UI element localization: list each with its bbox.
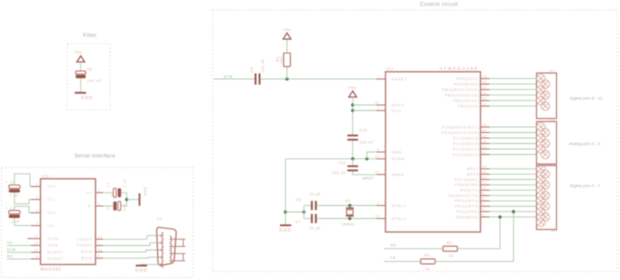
IC1 pin 11 PD5(T1) + wire to header	[460, 186, 537, 193]
svg-text:10k: 10k	[280, 57, 284, 64]
svg-text:R1IN: R1IN	[81, 250, 92, 254]
wire	[80, 62, 82, 71]
svg-text:8: 8	[377, 148, 379, 152]
svg-text:PD5(T1): PD5(T1)	[460, 189, 479, 193]
svg-text:GND: GND	[144, 187, 148, 196]
wire	[303, 206, 305, 219]
svg-text:GND: GND	[81, 95, 94, 100]
svg-text:C11: C11	[338, 161, 346, 165]
capacitor C8 100 uF	[76, 67, 102, 83]
capacitor C7 22 pF	[296, 214, 322, 231]
IC2 pin 13 R1IN	[81, 248, 103, 255]
capacitor C4 100 nF (series)	[250, 58, 265, 84]
wire	[127, 199, 139, 201]
resistor R1 10k	[276, 53, 291, 67]
IC1 pin 6 PD4(XCK/T0) + wire to header	[449, 191, 537, 198]
svg-text:PD7(AIN1): PD7(AIN1)	[455, 178, 480, 182]
svg-text:IC1: IC1	[387, 67, 394, 71]
svg-text:9: 9	[377, 201, 379, 205]
svg-text:3: 3	[483, 207, 485, 211]
IC1 pin 16 PB2(SS/OC1B) + wire to header	[445, 91, 537, 98]
svg-text:MAX232: MAX232	[41, 266, 62, 271]
svg-text:26: 26	[483, 134, 487, 138]
IC1 pin 22 ADC7 + wire to header	[467, 165, 537, 172]
svg-text:C4: C4	[250, 67, 254, 73]
svg-text:GND: GND	[135, 268, 148, 273]
wire	[352, 141, 354, 159]
IC1 pin 14 PB0(ICP) + wire to header	[458, 102, 537, 109]
svg-text:21: 21	[375, 170, 379, 174]
node cap gnd	[302, 210, 305, 213]
IC1 pin 24 PC1(ADC1) + wire to header	[453, 145, 537, 152]
svg-text:C5: C5	[107, 205, 111, 210]
node gnd2	[365, 157, 368, 160]
svg-text:PD6(AIN0): PD6(AIN0)	[455, 183, 480, 187]
net label DTR / reset wire	[214, 75, 255, 79]
node gnd1	[351, 157, 354, 160]
svg-text:PC0(ADC0): PC0(ADC0)	[453, 153, 479, 157]
svg-text:24: 24	[483, 145, 487, 149]
net label RX	[7, 254, 31, 259]
svg-text:8: 8	[98, 254, 100, 258]
svg-text:12: 12	[34, 248, 38, 252]
svg-text:PB1(OC1A): PB1(OC1A)	[453, 99, 479, 103]
svg-text:3: 3	[36, 195, 38, 199]
wire	[352, 159, 354, 166]
IC1 pin 20 AVCC	[375, 101, 405, 108]
svg-text:18: 18	[483, 80, 487, 84]
node crystal gnd	[284, 210, 287, 213]
svg-text:7: 7	[98, 241, 100, 245]
svg-text:6: 6	[483, 191, 485, 195]
svg-text:RX: RX	[7, 254, 13, 258]
svg-text:RESET: RESET	[392, 77, 408, 81]
IC1 pin 13 PD7(AIN1) + wire to header	[455, 175, 537, 182]
svg-text:27: 27	[483, 128, 487, 132]
wire	[352, 97, 354, 135]
svg-text:14: 14	[98, 235, 102, 239]
svg-text:JP2: JP2	[549, 117, 555, 121]
svg-text:Digital pins 0 - 7: Digital pins 0 - 7	[570, 183, 600, 188]
svg-text:Control circuit: Control circuit	[420, 2, 458, 8]
wire	[285, 211, 304, 213]
wire GND riser to DB9	[142, 263, 160, 266]
resistor R3 1k	[421, 254, 436, 271]
svg-text:C7: C7	[296, 220, 302, 224]
IC2 pin 14 T1OUT	[77, 235, 103, 242]
svg-text:1k: 1k	[425, 267, 430, 271]
resistor R2 1k	[443, 241, 458, 258]
svg-text:AREF: AREF	[392, 173, 405, 177]
svg-text:100 uF: 100 uF	[87, 79, 101, 83]
IC1 pin 27 PC4(ADC4/SDA) + wire to header	[441, 128, 537, 135]
svg-text:11: 11	[34, 234, 38, 238]
svg-text:C10: C10	[359, 129, 367, 133]
node PD1/TX	[512, 210, 515, 213]
IC1 pin 12 PD6(AIN0) + wire to header	[455, 181, 537, 188]
svg-text:19: 19	[483, 170, 487, 174]
svg-text:AVCC: AVCC	[392, 103, 405, 107]
svg-text:100 nF: 100 nF	[359, 141, 373, 145]
svg-text:17: 17	[483, 85, 487, 89]
svg-text:16: 16	[483, 91, 487, 95]
svg-text:C2-: C2-	[48, 224, 56, 228]
svg-text:T2IN: T2IN	[48, 244, 59, 248]
wire	[14, 193, 31, 204]
IC2 pin 8 R2IN	[81, 254, 103, 261]
capacitor C1 1 uF	[5, 180, 20, 197]
IC1 pin 2 PD0(RXD) + wire to header	[456, 213, 537, 220]
wire	[14, 174, 31, 187]
svg-text:AGND: AGND	[392, 157, 406, 161]
capacitor C10 100 nF	[347, 129, 373, 145]
svg-text:DTR: DTR	[224, 75, 233, 79]
wire	[317, 218, 376, 220]
svg-text:1 uF: 1 uF	[123, 179, 127, 187]
svg-text:Digital pins 8 - 13: Digital pins 8 - 13	[570, 95, 602, 100]
svg-text:15: 15	[483, 96, 487, 100]
svg-text:RX: RX	[391, 243, 397, 247]
svg-text:22 pF: 22 pF	[309, 192, 321, 196]
svg-text:+: +	[5, 207, 8, 211]
IC1 pin 22 AGND	[375, 154, 405, 161]
svg-text:+5V: +5V	[348, 85, 357, 90]
IC1 pin 9 XTAL1	[377, 201, 407, 208]
svg-text:Analog pins 0 - 5: Analog pins 0 - 5	[569, 141, 600, 146]
IC1 pin 28 PC5(ADC5/SCL) + wire to header	[442, 123, 537, 130]
header JP2 analog pins 0-5	[537, 117, 557, 164]
Filter block dashed border	[68, 44, 111, 110]
svg-text:C1+: C1+	[48, 185, 57, 189]
svg-text:10: 10	[34, 241, 38, 245]
svg-text:C1-: C1-	[48, 198, 56, 202]
svg-text:11: 11	[483, 186, 487, 190]
svg-text:PB4(MISO): PB4(MISO)	[454, 82, 480, 86]
IC2 pin 12 R1OUT	[31, 248, 64, 255]
IC1 pin 5 PD3(INT1) + wire to header	[455, 197, 537, 204]
IC2 pin 7 T2OUT	[77, 241, 103, 248]
svg-text:PC2(ADC2): PC2(ADC2)	[453, 142, 479, 146]
wire	[286, 67, 288, 79]
net label TX	[7, 241, 31, 246]
wire T2OUT to DB9 pin 2	[103, 243, 160, 246]
wire	[353, 171, 377, 174]
svg-text:VCC: VCC	[392, 109, 402, 113]
wire	[317, 205, 376, 207]
IC1 pin 10 XTAL2	[375, 214, 406, 221]
IC1 pin 15 PB1(OC1A) + wire to header	[453, 96, 537, 103]
svg-text:T1IN: T1IN	[48, 237, 59, 241]
capacitor C2 1 uF	[5, 207, 20, 224]
IC2 pin 10 T2IN	[31, 241, 58, 248]
IC2 pin 9 R2OUT	[31, 255, 64, 262]
svg-text:100 nF: 100 nF	[332, 171, 346, 175]
wire	[14, 206, 31, 212]
svg-text:Q1: Q1	[345, 199, 351, 203]
IC2 pin 2 V+	[86, 188, 103, 195]
svg-text:T2OUT: T2OUT	[77, 244, 93, 248]
svg-text:GND: GND	[392, 150, 403, 154]
net label RX / wire	[384, 243, 443, 248]
svg-text:13: 13	[483, 175, 487, 179]
IC2 pin 4 C2+	[31, 208, 56, 215]
wire	[457, 217, 500, 249]
svg-text:Filter: Filter	[83, 33, 97, 39]
IC2 MAX232 body	[41, 174, 96, 271]
svg-text:1: 1	[36, 182, 38, 186]
svg-text:1 uF: 1 uF	[123, 203, 127, 211]
svg-text:9: 9	[36, 255, 38, 259]
svg-text:1: 1	[377, 75, 379, 79]
node V+/V- cap junction	[125, 198, 128, 201]
svg-text:100 nF: 100 nF	[261, 58, 265, 72]
net label DTR	[7, 248, 31, 253]
IC1 pin 8 GND	[377, 148, 403, 155]
Serial interface dashed border	[2, 168, 194, 278]
+5V supply (filter)	[74, 50, 85, 62]
svg-text:V-: V-	[88, 204, 93, 208]
svg-text:PD3(INT1): PD3(INT1)	[455, 199, 479, 203]
IC1 pin 19 PB5(SCK) + wire to header	[456, 74, 537, 81]
svg-text:ADC6: ADC6	[467, 172, 480, 176]
IC2 pin 1 C1+	[31, 182, 56, 189]
IC1 pin 7 VCC	[377, 106, 402, 113]
svg-text:C3: C3	[107, 182, 111, 187]
node reset junction	[285, 77, 288, 80]
IC1 pin 17 PB3(MOSI/OC2) + wire to header	[442, 85, 537, 92]
Control circuit dashed border	[213, 10, 618, 272]
svg-text:PC3(ADC3): PC3(ADC3)	[453, 136, 479, 140]
node AVCC	[351, 103, 354, 106]
wire	[261, 78, 377, 80]
node VCC	[351, 109, 354, 112]
svg-text:+: +	[5, 180, 8, 184]
svg-text:+: +	[111, 193, 114, 197]
svg-text:PB5(SCK): PB5(SCK)	[456, 77, 479, 81]
wire	[14, 218, 31, 226]
header JP3 digital pins 8-13	[537, 69, 557, 119]
svg-text:C6: C6	[296, 198, 302, 202]
IC1 pin 21 AREF	[375, 170, 404, 177]
wire	[121, 193, 127, 200]
svg-text:C2+: C2+	[48, 211, 57, 215]
IC2 pin 3 C1-	[31, 195, 56, 202]
svg-text:14: 14	[483, 102, 487, 106]
svg-text:19: 19	[483, 74, 487, 78]
ground (DB9)	[135, 266, 148, 273]
svg-text:R2OUT: R2OUT	[48, 257, 64, 261]
svg-text:4: 4	[36, 208, 38, 212]
wire R1IN to DB9 pin 3	[103, 250, 160, 252]
svg-text:12: 12	[483, 181, 487, 185]
+5V supply (reset pullup)	[282, 27, 291, 39]
DB9 pin bridges	[182, 239, 184, 246]
svg-text:ATMEGA168: ATMEGA168	[439, 66, 478, 71]
svg-text:IC2: IC2	[42, 174, 49, 178]
IC2 pin 5 C2-	[31, 221, 56, 228]
svg-text:22: 22	[375, 154, 379, 158]
IC1 pin 26 PC3(ADC3) + wire to header	[453, 134, 537, 141]
svg-text:X1: X1	[157, 217, 162, 221]
svg-text:PB3(MOSI/OC2): PB3(MOSI/OC2)	[442, 88, 479, 92]
svg-text:GND: GND	[279, 227, 292, 232]
svg-text:PC1(ADC1): PC1(ADC1)	[453, 147, 479, 151]
svg-text:2: 2	[98, 188, 100, 192]
svg-text:PD2(INT0): PD2(INT0)	[455, 205, 479, 209]
svg-text:XTAL1: XTAL1	[392, 204, 407, 208]
IC1 pin 19 ADC6 + wire to header	[467, 170, 537, 177]
wire	[353, 110, 377, 112]
svg-text:Serial interface: Serial interface	[75, 154, 116, 160]
svg-text:20: 20	[375, 101, 379, 105]
svg-text:10: 10	[375, 214, 379, 218]
wire	[367, 152, 377, 159]
IC1 pin 18 PB4(MISO) + wire to header	[454, 80, 537, 87]
svg-text:+5V: +5V	[74, 50, 83, 55]
capacitor C6 22 pF	[296, 192, 322, 210]
node xtal1	[348, 204, 351, 207]
svg-text:PD1(TXD): PD1(TXD)	[456, 210, 479, 214]
svg-text:ADC7: ADC7	[467, 167, 480, 171]
wire	[304, 218, 311, 220]
svg-text:1k: 1k	[449, 254, 454, 258]
ground (crystal)	[279, 225, 292, 232]
connector X1 DB9	[157, 217, 186, 268]
wire	[286, 39, 288, 53]
svg-text:PD0(RXD): PD0(RXD)	[456, 215, 480, 219]
svg-text:5: 5	[483, 197, 485, 201]
svg-text:JP1: JP1	[551, 229, 557, 233]
svg-text:PB2(SS/OC1B): PB2(SS/OC1B)	[445, 93, 480, 97]
capacitor C5 1 uF (V-)	[103, 202, 127, 212]
node PD0/RX	[498, 215, 501, 218]
IC1 pin 1 RESET	[377, 75, 408, 82]
IC2 pin 11 T1IN	[31, 234, 58, 241]
capacitor C11 100 nF (AREF)	[332, 161, 358, 175]
svg-text:PC5(ADC5/SCL): PC5(ADC5/SCL)	[442, 125, 480, 129]
svg-text:R1OUT: R1OUT	[48, 251, 64, 255]
wire	[27, 238, 31, 240]
wire R2IN to DB9 pin 4	[103, 257, 160, 258]
svg-text:7: 7	[377, 106, 379, 110]
wire	[353, 104, 377, 106]
svg-text:6: 6	[98, 202, 100, 206]
svg-text:28: 28	[483, 123, 487, 127]
svg-text:5: 5	[36, 221, 38, 225]
IC1 pin 25 PC2(ADC2) + wire to header	[453, 139, 537, 146]
wire	[80, 78, 82, 92]
IC2 pin 6 V-	[88, 202, 103, 209]
svg-text:V+: V+	[86, 191, 92, 195]
svg-text:C8: C8	[87, 67, 93, 71]
wire	[121, 200, 127, 207]
svg-text:PD4(XCK/T0): PD4(XCK/T0)	[449, 194, 480, 198]
svg-text:DTR: DTR	[7, 248, 16, 252]
svg-text:TX: TX	[390, 256, 396, 260]
IC1 pin 3 PD1(TXD) + wire to header	[456, 207, 537, 214]
wire	[435, 212, 513, 262]
GND net wire	[285, 158, 376, 160]
crystal Q1 16MHz	[341, 199, 355, 226]
svg-text:16MHz: 16MHz	[341, 222, 355, 226]
svg-text:13: 13	[98, 248, 102, 252]
IC1 pin 4 PD2(INT0) + wire to header	[455, 202, 537, 209]
svg-text:1 uF: 1 uF	[11, 220, 20, 224]
svg-text:JP3: JP3	[549, 69, 555, 73]
wire	[304, 205, 311, 207]
+5V supply (AVCC/VCC)	[348, 85, 357, 97]
svg-text:4: 4	[483, 202, 485, 206]
wire T1OUT to DB9 pin 1	[103, 236, 160, 240]
svg-text:R2IN: R2IN	[81, 256, 92, 260]
svg-text:R2: R2	[447, 241, 453, 245]
wire gnd branch down	[284, 159, 286, 225]
ground (rotated, MAX232 caps)	[140, 187, 148, 206]
svg-text:T1OUT: T1OUT	[77, 237, 93, 241]
ground (filter)	[75, 93, 94, 100]
svg-text:XTAL2: XTAL2	[392, 217, 407, 221]
svg-text:PB0(ICP): PB0(ICP)	[458, 104, 480, 108]
svg-text:22: 22	[483, 165, 487, 169]
svg-text:R3: R3	[425, 254, 431, 258]
IC1 ATMEGA168 body	[386, 66, 481, 232]
svg-text:23: 23	[483, 150, 487, 154]
net label TX / wire	[384, 256, 421, 261]
svg-text:+5V: +5V	[282, 27, 291, 32]
svg-text:2: 2	[483, 213, 485, 217]
svg-text:TX: TX	[7, 241, 13, 245]
capacitor C3 1 uF (V+)	[103, 179, 127, 197]
header JP1 digital pins 0-7	[537, 165, 558, 233]
svg-text:PC4(ADC4/SDA): PC4(ADC4/SDA)	[441, 131, 479, 135]
IC1 pin 23 PC0(ADC0) + wire to header	[453, 150, 537, 157]
svg-text:AREF: AREF	[363, 177, 375, 181]
svg-text:22 pF: 22 pF	[309, 227, 321, 231]
node xtal2	[348, 217, 351, 220]
svg-text:25: 25	[483, 139, 487, 143]
